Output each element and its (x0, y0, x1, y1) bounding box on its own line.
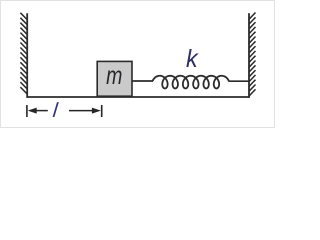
left wall hatching (20, 13, 27, 94)
mass m block (97, 61, 132, 96)
right wall (248, 13, 250, 98)
dimension right tick (101, 105, 103, 117)
spring k coil (153, 76, 229, 89)
svg-text:k: k (186, 45, 199, 73)
left wall (26, 13, 28, 98)
floor (26, 96, 249, 98)
dimension right arrow (92, 108, 101, 114)
svg-text:l: l (52, 99, 60, 122)
svg-text:m: m (106, 62, 122, 90)
dimension left tick (26, 105, 28, 117)
dimension left arrow (28, 108, 37, 114)
wire spring to right wall (228, 80, 249, 82)
right wall hatching (249, 13, 255, 97)
wire mass to spring (132, 80, 153, 82)
